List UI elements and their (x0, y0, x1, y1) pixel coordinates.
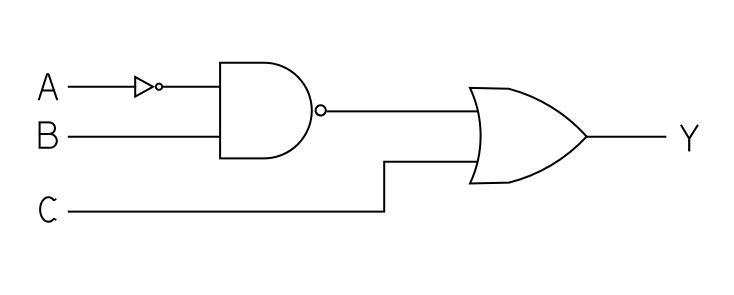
NAND gate U2 (AND body) (220, 63, 312, 159)
OR gate U3 body (470, 88, 587, 184)
wire C (from label C, runs right then up to OR gate bottom input) (68, 162, 478, 212)
inverter U1 output bubble (156, 84, 162, 90)
label Y (output net Y) (681, 125, 698, 152)
wire B (from label B to NAND input) (68, 136, 221, 138)
wire A (from label A to inverter input) (68, 86, 136, 88)
label B (input net B) (39, 122, 57, 148)
output wire (OR gate tip to label Y) (587, 136, 667, 138)
label C (input net C) (40, 197, 56, 221)
label A (input net A) (39, 74, 58, 100)
wire from inverter bubble to NAND input (net A-bar) (162, 86, 221, 88)
inverter U1 (NOT gate triangle) (135, 77, 153, 97)
NAND gate U2 output bubble (316, 105, 326, 115)
wire from NAND bubble to OR gate top input (327, 110, 479, 112)
